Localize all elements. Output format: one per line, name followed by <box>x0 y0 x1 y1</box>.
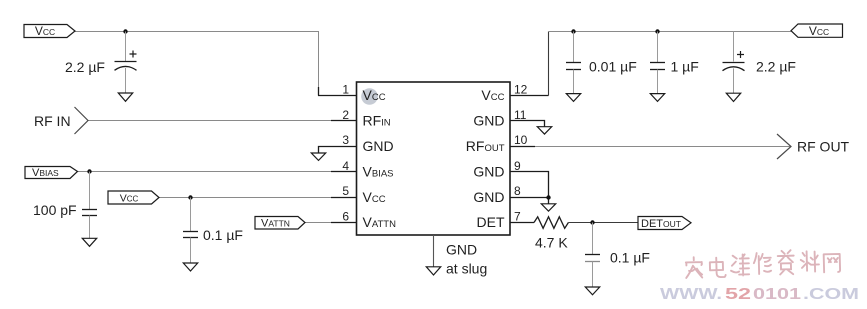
svg-text:10: 10 <box>514 133 528 147</box>
svg-text:0.1 µF: 0.1 µF <box>610 249 650 265</box>
capacitor 1uF plates <box>650 62 665 64</box>
svg-text:VCC: VCC <box>809 24 829 38</box>
capacitor 0.01uF lead <box>573 32 575 63</box>
svg-text:7: 7 <box>514 210 521 224</box>
svg-text:12: 12 <box>514 82 528 96</box>
capacitor 0.1uF right plates <box>585 254 600 256</box>
char xiu <box>754 253 772 274</box>
svg-text:0101: 0101 <box>753 286 802 303</box>
svg-text:4.7 K: 4.7 K <box>535 234 568 250</box>
capacitor 0.1uF right bottom lead <box>592 262 594 288</box>
ground under 0.01uF <box>566 94 580 102</box>
VCC tag top-left <box>24 25 75 38</box>
wire top-right VCC rail <box>549 31 792 33</box>
DETOUT tag <box>638 217 691 230</box>
wire DET net <box>568 222 638 224</box>
svg-text:VCC: VCC <box>35 24 55 38</box>
capacitor 2.2uF right curved plate <box>723 67 745 71</box>
IC pin labels left <box>363 87 397 230</box>
ground under 0.1uF right <box>585 287 599 295</box>
capacitor 0.1uF left plates <box>183 231 198 233</box>
pin 11 stub and ground stub <box>510 121 545 127</box>
pin-1 highlight circle <box>361 88 378 105</box>
junction dot 1uF <box>655 29 659 33</box>
char wang <box>824 254 840 272</box>
wire VATTN net <box>305 222 331 224</box>
svg-text:GND: GND <box>473 112 504 128</box>
svg-text:.COM: .COM <box>803 286 859 303</box>
VCC tag top-right <box>791 24 843 37</box>
VCC tag lower-left <box>108 191 159 204</box>
junction dot pin 8 <box>546 195 550 199</box>
char jia <box>686 257 703 278</box>
svg-text:GND: GND <box>473 164 504 180</box>
GND at slug lead <box>433 235 435 267</box>
ground under C1 <box>118 93 132 101</box>
wire RF IN net <box>88 120 331 122</box>
junction dot VCC lower-left <box>188 195 192 199</box>
svg-text:6: 6 <box>342 210 349 224</box>
capacitor 2.2uF right bottom lead <box>733 68 735 93</box>
capacitor 100pF plates <box>82 209 97 211</box>
svg-text:GND: GND <box>446 241 477 257</box>
watermark chinese characters <box>686 249 841 278</box>
resistor R1 4.7K <box>534 217 568 229</box>
pin 1 stub <box>318 87 357 96</box>
ground under 100pF <box>82 238 96 246</box>
ground at pin 11 <box>537 127 551 134</box>
ground under 2.2uF right <box>726 93 740 101</box>
IC U1 body <box>357 82 511 235</box>
svg-text:2.2 µF: 2.2 µF <box>756 59 796 75</box>
wire VCC lower-left net <box>159 197 331 199</box>
pin 9 stub elbow to pin 8 <box>510 172 549 198</box>
capacitor 0.1uF left bottom lead <box>190 238 192 264</box>
svg-text:DET: DET <box>477 214 505 230</box>
capacitor 1uF bottom lead <box>657 70 659 94</box>
svg-text:8: 8 <box>514 184 521 198</box>
pin 6 stub <box>331 222 357 224</box>
char zi <box>778 250 795 274</box>
char dian <box>710 257 726 277</box>
svg-text:4: 4 <box>342 159 349 173</box>
RF OUT arrow <box>777 134 791 159</box>
svg-text:11: 11 <box>514 108 527 122</box>
capacitor 0.01uF bottom lead <box>573 70 575 94</box>
junction dot left rail <box>123 29 127 33</box>
capacitor C1 2.2uF polarized: lead <box>125 32 127 62</box>
svg-text:5: 5 <box>342 184 349 198</box>
svg-text:VBIAS: VBIAS <box>32 167 59 179</box>
capacitor 2.2uF right plus <box>737 51 744 58</box>
capacitor C1 bottom lead <box>125 68 127 93</box>
pin 7 stub <box>510 222 534 224</box>
svg-text:GND: GND <box>473 189 504 205</box>
capacitor 2.2uF right top plate <box>723 62 745 64</box>
wire VBIAS net <box>78 171 332 173</box>
wire pin-12 riser <box>548 32 550 96</box>
junction dot DET <box>590 220 594 224</box>
pin 5 stub <box>331 197 357 199</box>
capacitor C1 plus sign <box>130 51 137 58</box>
ground at pin 3 <box>311 153 325 160</box>
VBIAS tag <box>25 167 78 179</box>
wire RF OUT net <box>535 146 791 148</box>
ground under 0.1uF left <box>183 263 197 271</box>
IC pin labels right <box>466 87 505 230</box>
junction dot VBIAS <box>87 169 91 173</box>
pin 10 stub <box>510 146 535 148</box>
capacitor 100pF bottom lead <box>89 216 91 239</box>
pin 2 stub <box>331 120 357 122</box>
junction dot 0.01uF <box>571 29 575 33</box>
svg-text:VATTN: VATTN <box>261 217 290 229</box>
watermark url <box>660 286 859 303</box>
capacitor 0.1uF right lead <box>592 223 594 255</box>
svg-text:9: 9 <box>514 159 521 173</box>
capacitor 1uF lead <box>657 32 659 63</box>
char wei <box>731 254 750 275</box>
capacitor 100pF lead <box>89 172 91 210</box>
svg-text:0.1 µF: 0.1 µF <box>203 227 243 243</box>
capacitor 2.2uF right lead <box>733 32 735 62</box>
svg-text:0.01 µF: 0.01 µF <box>589 59 637 75</box>
svg-text:RF OUT: RF OUT <box>797 138 850 154</box>
capacitor C1 curved plate <box>115 66 137 70</box>
svg-text:RF IN: RF IN <box>34 113 71 129</box>
svg-text:2.2 µF: 2.2 µF <box>65 59 105 75</box>
capacitor 0.1uF left lead <box>190 198 192 232</box>
svg-text:52: 52 <box>725 286 751 303</box>
pin 12 stub <box>510 95 549 97</box>
svg-text:1 µF: 1 µF <box>671 59 699 75</box>
pin 4 stub <box>331 171 357 173</box>
pin numbers 1-12 <box>342 82 527 223</box>
pin 8 stub <box>510 198 549 204</box>
svg-text:100 pF: 100 pF <box>33 202 77 218</box>
wire top-left VCC rail <box>75 32 319 96</box>
svg-text:1: 1 <box>342 82 349 96</box>
svg-text:at slug: at slug <box>446 260 487 276</box>
VATTN tag <box>255 217 305 230</box>
ground under 1uF <box>650 94 664 102</box>
pin 3 stub and ground elbow <box>319 147 357 154</box>
svg-text:GND: GND <box>363 138 394 154</box>
svg-text:3: 3 <box>342 133 349 147</box>
svg-text:DETOUT: DETOUT <box>641 218 681 230</box>
svg-text:WWW.: WWW. <box>660 286 722 303</box>
ground at slug <box>426 267 440 275</box>
RF IN arrow <box>75 107 89 134</box>
svg-text:VCC: VCC <box>120 192 139 204</box>
capacitor 0.01uF plates <box>566 62 581 64</box>
char liao <box>801 251 820 272</box>
svg-text:2: 2 <box>342 108 349 122</box>
ground at pin 8 <box>541 204 555 211</box>
capacitor C1 top plate <box>115 61 137 63</box>
